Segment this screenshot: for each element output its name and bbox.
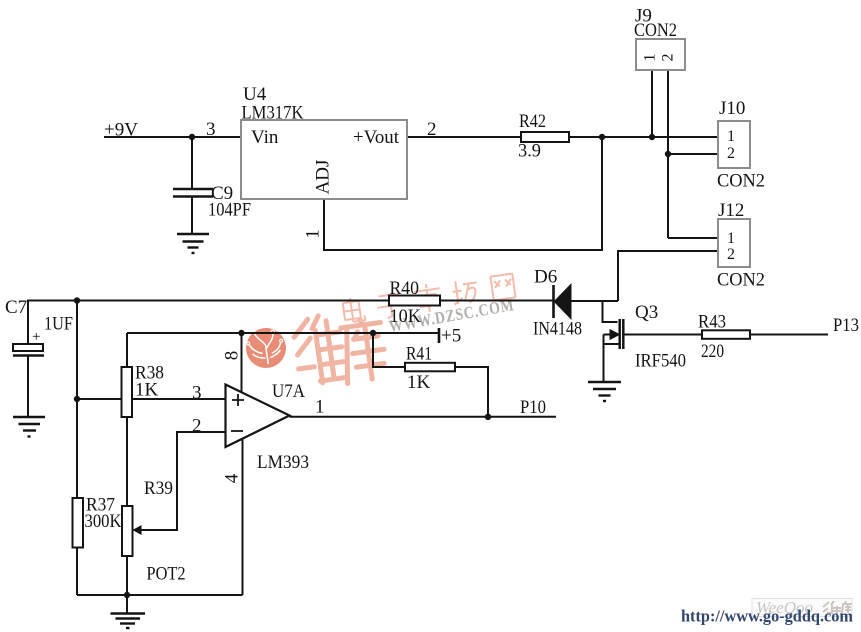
wire pin3 line bbox=[77, 398, 226, 400]
resistor R42 body bbox=[521, 132, 569, 142]
capacitor C7 bbox=[13, 344, 44, 416]
svg-text:LM317K: LM317K bbox=[242, 103, 304, 124]
svg-text:3: 3 bbox=[192, 383, 202, 404]
op-amp U7A bbox=[226, 385, 290, 448]
svg-text:2: 2 bbox=[427, 119, 437, 140]
svg-text:+9V: +9V bbox=[104, 120, 138, 141]
svg-text:104PF: 104PF bbox=[208, 200, 251, 221]
ground Q3 bbox=[588, 382, 621, 401]
watermark char ku bbox=[339, 314, 389, 384]
svg-text:D6: D6 bbox=[534, 267, 557, 288]
resistor R38 body bbox=[122, 367, 133, 417]
svg-text:R39: R39 bbox=[144, 478, 173, 499]
svg-text:J12: J12 bbox=[718, 200, 744, 221]
wire POT2 wiper to pin2 bbox=[141, 432, 226, 530]
svg-text:3.9: 3.9 bbox=[518, 141, 541, 162]
svg-text:P13: P13 bbox=[833, 315, 859, 336]
svg-text:8: 8 bbox=[221, 351, 242, 361]
wire U4 output rail bbox=[407, 136, 718, 138]
svg-text:1: 1 bbox=[727, 128, 735, 145]
wire R41 to output bbox=[455, 367, 488, 417]
wire pin8 +5 line bbox=[127, 332, 439, 334]
ground bottom bbox=[111, 595, 146, 628]
svg-text:1UF: 1UF bbox=[44, 314, 73, 335]
wire D6 to Q3 gate bbox=[603, 301, 618, 322]
wire +9V rail bbox=[104, 136, 241, 138]
svg-text:1: 1 bbox=[302, 229, 323, 239]
svg-text:IRF540: IRF540 bbox=[635, 351, 686, 372]
svg-text:Vin: Vin bbox=[251, 127, 279, 148]
svg-text:CON2: CON2 bbox=[717, 171, 765, 192]
wire J9 pin2 drop bbox=[667, 70, 669, 238]
resistor R37 body bbox=[73, 498, 84, 548]
svg-text:+: + bbox=[32, 329, 40, 345]
wire Q3 source to R43 bbox=[625, 334, 703, 336]
svg-text:1K: 1K bbox=[407, 372, 431, 393]
svg-text:2: 2 bbox=[727, 145, 735, 162]
svg-text:ADJ: ADJ bbox=[312, 160, 333, 195]
weeqoo watermark bbox=[752, 598, 852, 617]
wire R42 junction to ADJ bbox=[324, 137, 602, 250]
connector J9 box bbox=[636, 39, 685, 70]
watermark logo circle bbox=[243, 325, 288, 371]
wire J12 pin1 bbox=[668, 237, 718, 239]
node +5 tick bbox=[438, 328, 441, 343]
resistor R38 leads bbox=[126, 333, 128, 367]
wire R41 branch bbox=[373, 333, 405, 367]
resistor R40 body bbox=[389, 296, 440, 306]
svg-text:Q3: Q3 bbox=[635, 302, 658, 323]
wire J12 pin2 bbox=[618, 251, 718, 301]
svg-text:IN4148: IN4148 bbox=[533, 319, 582, 340]
ground C9 bbox=[177, 234, 209, 253]
wire R37 to rail bbox=[76, 548, 78, 596]
svg-text:1: 1 bbox=[642, 54, 659, 62]
svg-text:POT2: POT2 bbox=[147, 564, 186, 585]
capacitor C9 plates bbox=[173, 189, 213, 233]
wire opamp pin4 bbox=[242, 437, 244, 595]
wire J10 pin2 bbox=[668, 153, 718, 155]
wire R38 to POT2 bbox=[126, 417, 128, 506]
svg-text:2: 2 bbox=[192, 416, 202, 437]
transistor Q3 bbox=[604, 319, 624, 381]
wire C9 branch bbox=[191, 137, 193, 189]
connector J12 box bbox=[718, 219, 750, 267]
watermark outline chars dianzishichangwang bbox=[342, 274, 515, 323]
svg-text:R40: R40 bbox=[390, 278, 420, 299]
svg-text:J10: J10 bbox=[719, 98, 745, 119]
svg-text:R43: R43 bbox=[698, 312, 726, 333]
svg-text:+Vout: +Vout bbox=[353, 127, 400, 148]
diode D6 bbox=[554, 285, 619, 318]
wire mid rail C7 to D6 bbox=[28, 301, 553, 345]
svg-text:LM393: LM393 bbox=[257, 452, 309, 473]
svg-text:4: 4 bbox=[221, 473, 242, 483]
svg-text:CON2: CON2 bbox=[717, 270, 765, 291]
wire POT2 to rail bbox=[126, 556, 128, 595]
svg-text:R42: R42 bbox=[519, 111, 546, 132]
potentiometer wiper arrow bbox=[133, 525, 142, 535]
svg-text:1: 1 bbox=[315, 397, 325, 418]
svg-text:10K: 10K bbox=[390, 306, 422, 327]
svg-text:3: 3 bbox=[206, 119, 216, 140]
svg-text:P10: P10 bbox=[520, 397, 546, 418]
wire opamp pin8 bbox=[241, 333, 243, 393]
svg-text:2: 2 bbox=[727, 246, 735, 263]
IC U4 box bbox=[241, 120, 407, 199]
resistor R41 body bbox=[405, 363, 455, 372]
svg-text:1: 1 bbox=[727, 230, 735, 247]
op-amp minus sign bbox=[231, 430, 243, 432]
svg-text:U7A: U7A bbox=[272, 381, 305, 402]
wire R43 to P13 bbox=[750, 334, 828, 336]
svg-text:R41: R41 bbox=[406, 344, 432, 365]
svg-text:http://www.go-gddq.com: http://www.go-gddq.com bbox=[681, 607, 853, 626]
svg-text:+5: +5 bbox=[441, 326, 461, 347]
wire bottom rail bbox=[77, 594, 243, 596]
svg-text:CON2: CON2 bbox=[634, 20, 677, 41]
wire R37 branch bbox=[76, 301, 78, 499]
op-amp plus sign bbox=[232, 394, 244, 406]
wire J9 pin1 drop bbox=[651, 70, 653, 137]
svg-text:220: 220 bbox=[701, 341, 724, 362]
connector J10 box bbox=[718, 121, 750, 168]
ground C7 bbox=[13, 417, 45, 437]
svg-text:300K: 300K bbox=[85, 511, 122, 532]
wire opamp output bbox=[290, 416, 557, 418]
watermark char wei bbox=[292, 313, 348, 386]
svg-text:C7: C7 bbox=[5, 297, 27, 318]
potentiometer POT2 body bbox=[122, 506, 133, 556]
svg-text:2: 2 bbox=[660, 54, 677, 62]
resistor R43 body bbox=[702, 330, 750, 339]
svg-text:1K: 1K bbox=[135, 380, 159, 401]
